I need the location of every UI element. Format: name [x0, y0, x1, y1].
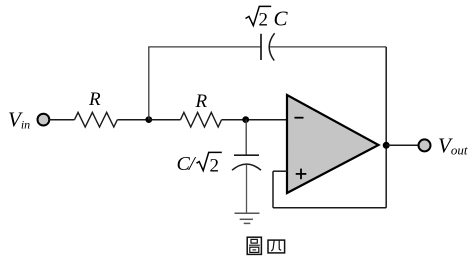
value label sqrt2 C: [246, 6, 289, 30]
wire R2 through node B to op-amp minus input: [222, 119, 288, 121]
wire top rail right of C1: [270, 46, 386, 48]
capacitor C2 top plate: [234, 154, 259, 156]
wire feedback loop left vertical: [272, 171, 274, 208]
terminal Vin: [38, 114, 50, 126]
capacitor C2 bottom curved plate: [232, 164, 261, 170]
wire Vin to R1: [49, 119, 74, 121]
capacitor C1 sqrt2*C right curved plate: [269, 33, 274, 60]
op-amp plus sign: [296, 169, 307, 180]
op-amp minus sign: [295, 117, 304, 119]
op-amp U1: [287, 95, 379, 193]
wire node A up to feedback rail: [148, 47, 150, 120]
ground: [235, 213, 260, 223]
wire top rail left of C1: [148, 46, 261, 48]
node A junction dot: [145, 116, 152, 123]
svg-text:2: 2: [210, 156, 220, 177]
svg-text:C: C: [274, 7, 289, 31]
resistor R2: [181, 112, 222, 127]
resistor R1: [75, 112, 118, 127]
capacitor C1 sqrt2*C left plate: [260, 34, 262, 60]
svg-text:2: 2: [259, 10, 269, 31]
node B junction dot: [242, 116, 249, 123]
wire C2 to ground: [246, 165, 248, 213]
svg-text:R: R: [195, 91, 208, 112]
wire node B down to C2: [245, 120, 247, 156]
wire right vertical rail: [385, 47, 387, 208]
caption: character 四: [268, 240, 285, 253]
terminal Vout: [419, 139, 431, 151]
node output junction dot: [383, 142, 390, 149]
wire output to Vout terminal: [386, 144, 418, 146]
caption: character 圖: [247, 237, 261, 254]
value label C/sqrt2: [177, 152, 222, 176]
wire plus input stub: [273, 170, 288, 172]
svg-text:R: R: [88, 89, 101, 110]
wire R1 to node A: [117, 119, 149, 121]
wire node A to R2: [149, 119, 181, 121]
wire feedback loop bottom: [273, 207, 386, 209]
